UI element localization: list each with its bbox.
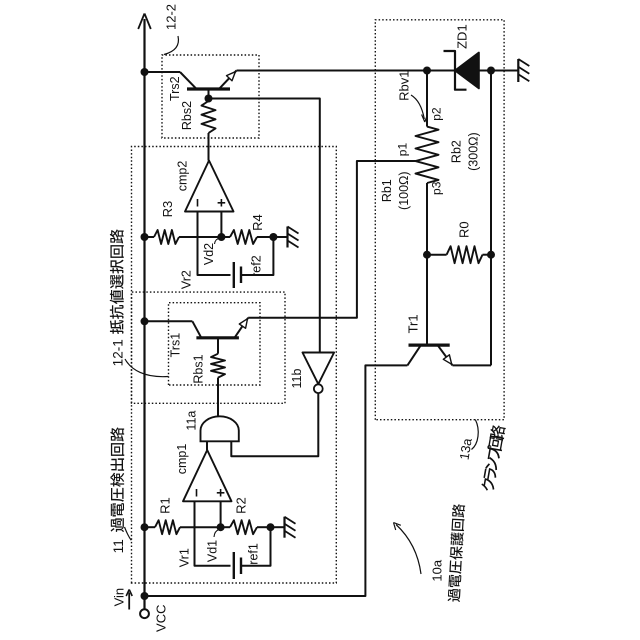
junction dot ZD1 anode / clamp ground node bbox=[487, 67, 495, 75]
svg-text:Tr1: Tr1 bbox=[406, 314, 421, 333]
comparator cmp2 triangle bbox=[185, 161, 234, 212]
svg-text:12-2: 12-2 bbox=[164, 4, 179, 30]
svg-text:Rbs2: Rbs2 bbox=[180, 101, 194, 130]
Trs2 emitter open arrowhead bbox=[227, 72, 236, 81]
svg-text:p2: p2 bbox=[430, 107, 444, 121]
wire R3 to node Vd2 bbox=[179, 236, 221, 238]
Vin input arrow bbox=[128, 593, 130, 610]
svg-text:Trs1: Trs1 bbox=[169, 333, 183, 358]
comparator cmp1 triangle bbox=[183, 450, 232, 501]
Trs1 emitter wire to p1 tap bbox=[248, 161, 415, 318]
VCC terminal circle bbox=[140, 609, 149, 618]
svg-text:R1: R1 bbox=[158, 497, 173, 514]
wire ZD1 anode to ground rail bbox=[479, 70, 491, 72]
ground symbol below R4 node bbox=[273, 236, 287, 238]
dotted box 11 overvoltage detection circuit bbox=[132, 147, 337, 584]
leader line for label 11 bbox=[125, 527, 132, 540]
junction dot Trs2 base node bbox=[205, 95, 213, 103]
svg-text:Vr2: Vr2 bbox=[180, 270, 194, 289]
label clamp circuit (katakana) bbox=[480, 424, 506, 492]
junction dot ZD1 cathode node bbox=[423, 67, 431, 75]
label 13a bbox=[456, 436, 474, 461]
svg-text:Vd1: Vd1 bbox=[206, 540, 220, 562]
wire ref2 to R4 ground node bbox=[241, 237, 273, 275]
zener diode ZD1 triangle (anode) bbox=[455, 53, 479, 89]
svg-text:(300Ω): (300Ω) bbox=[467, 132, 481, 171]
cmp2 plus sign bbox=[220, 199, 222, 207]
Tr1 collector diagonal bbox=[407, 346, 420, 366]
svg-text:R2: R2 bbox=[234, 497, 249, 514]
svg-text:cmp1: cmp1 bbox=[175, 444, 189, 475]
inverter 11b triangle bbox=[303, 353, 335, 385]
junction on rail to R3 bbox=[141, 233, 149, 241]
Trs1 emitter open arrowhead bbox=[239, 319, 247, 329]
wire p3 node to Rbv1 bbox=[426, 183, 428, 255]
wire rail dot to Tr1 collector (around bottom) bbox=[145, 365, 408, 596]
leader arrow for label 10a bbox=[396, 525, 421, 575]
wire Rbs1 to Trs1 base bbox=[217, 338, 219, 354]
resistor Rbs1 bbox=[211, 354, 225, 378]
wire cmp1 output to AND gate 11a bbox=[206, 441, 208, 450]
zener diode ZD1 cathode bar with hooks bbox=[444, 51, 467, 90]
transistor Trs1 base bar bbox=[196, 336, 239, 339]
svg-text:p1: p1 bbox=[396, 143, 410, 157]
wire cmp2 minus input to Vr2 bbox=[198, 212, 231, 276]
svg-text:11b: 11b bbox=[290, 368, 304, 388]
svg-text:ref2: ref2 bbox=[250, 255, 264, 277]
Trs2 emitter diagonal bbox=[220, 71, 237, 89]
wire rail to R1 bbox=[145, 526, 156, 528]
cmp1 plus sign bbox=[220, 489, 222, 497]
svg-text:11a: 11a bbox=[185, 411, 199, 431]
node Vd1 junction dot bbox=[217, 523, 225, 531]
wire cmp2 output to Rbs2 bbox=[208, 133, 210, 161]
svg-text:Rbs1: Rbs1 bbox=[192, 354, 206, 383]
svg-text:Vin: Vin bbox=[112, 588, 127, 607]
leader arrow Rbv1 to resistor bbox=[411, 95, 424, 119]
resistor R3 bbox=[154, 230, 179, 244]
wire R1 to node Vd1 bbox=[180, 526, 221, 528]
svg-text:p3: p3 bbox=[430, 181, 444, 195]
wire Trs2 base node to inverter 11b input bbox=[209, 99, 320, 353]
cmp1 minus sign bbox=[196, 489, 198, 497]
resistor Rbs2 bbox=[202, 101, 216, 133]
wire rail to R3 bbox=[145, 236, 155, 238]
transistor Trs2 base bar bbox=[187, 87, 230, 90]
svg-text:VCC: VCC bbox=[154, 604, 169, 631]
svg-text:Trs2: Trs2 bbox=[168, 76, 182, 101]
wire cmp1 plus input to Vd1 bbox=[220, 501, 222, 527]
wire 11a output to Rbs1 bbox=[217, 378, 219, 417]
junction on rail to Trs2 bbox=[141, 68, 149, 76]
output arrow (rail right end) bbox=[138, 14, 144, 30]
dotted box 13a clamp circuit bbox=[375, 20, 504, 420]
svg-text:Rbv1: Rbv1 bbox=[397, 71, 412, 101]
svg-text:R0: R0 bbox=[457, 221, 472, 238]
transistor Tr1 base bar bbox=[409, 344, 450, 347]
svg-text:Rb1: Rb1 bbox=[380, 179, 394, 202]
leader line for label 13a bbox=[472, 420, 479, 450]
node Vin/VCC supply rail wire bbox=[143, 19, 145, 609]
inverter 11b bubble bbox=[314, 384, 323, 393]
junction on rail to Trs1 bbox=[141, 317, 149, 325]
resistor R2 bbox=[230, 520, 257, 534]
junction dot R4/ref2/ground bbox=[269, 233, 277, 241]
leader line for label 12-2 bbox=[164, 36, 178, 55]
resistor R1 bbox=[155, 520, 180, 534]
svg-text:Rb2: Rb2 bbox=[450, 140, 464, 163]
svg-text:10a: 10a bbox=[430, 559, 445, 581]
junction on rail to Tr1 collector bbox=[141, 592, 149, 600]
clamp ground rail wire bbox=[490, 71, 492, 366]
Trs2 collector wire from rail bbox=[145, 71, 181, 73]
ground symbol below R2 node bbox=[271, 526, 285, 528]
svg-text:12-1: 12-1 bbox=[111, 339, 126, 366]
junction dot R0 top (p3 node) bbox=[423, 251, 431, 259]
node Vd2 junction dot bbox=[217, 233, 225, 241]
dotted box around 12-1 unit bbox=[132, 292, 286, 403]
svg-text:(100Ω): (100Ω) bbox=[397, 171, 411, 210]
wire cmp1 minus input to Vr1 bbox=[195, 501, 231, 565]
cmp2 minus sign bbox=[197, 199, 199, 207]
battery ref1 voltage source bbox=[233, 552, 235, 579]
AND gate 11a bbox=[201, 416, 239, 441]
wire Rbv1 to ZD1 node bbox=[426, 71, 428, 127]
dotted box 12-1 (Trs1+Rbs1) bbox=[169, 303, 261, 385]
leader line for label 12-1 bbox=[125, 359, 168, 377]
wire ref1 to R2 ground node bbox=[241, 527, 271, 566]
wire 11b output to 11a second input bbox=[231, 393, 318, 456]
Tr1 emitter wire to clamp ground rail bbox=[453, 364, 492, 366]
svg-text:cmp2: cmp2 bbox=[176, 161, 190, 192]
wire R2 to ground node bbox=[257, 526, 271, 528]
junction on rail to R1 bbox=[141, 523, 149, 531]
Tr1 emitter diagonal bbox=[438, 346, 453, 366]
Trs1 collector wire from rail bbox=[145, 320, 193, 322]
Trs2 emitter wire to clamp node bbox=[237, 70, 428, 72]
Tr1 emitter open arrowhead bbox=[443, 355, 451, 365]
wire Vd2 to R4 bbox=[221, 236, 230, 238]
svg-text:Vd2: Vd2 bbox=[202, 243, 216, 265]
leader Vd1 to node bbox=[214, 530, 219, 538]
wire Vd1 to R2 bbox=[221, 526, 230, 528]
junction dot R0 bottom bbox=[487, 251, 495, 259]
Trs1 emitter diagonal bbox=[235, 318, 248, 338]
Tr1 base wire from divider bbox=[426, 255, 428, 345]
resistor Rb1+Rb2 (Rbv1) zigzag bbox=[416, 127, 439, 183]
svg-text:11: 11 bbox=[111, 539, 126, 553]
resistor R0 bbox=[427, 254, 447, 256]
svg-text:R4: R4 bbox=[250, 214, 265, 231]
svg-text:R3: R3 bbox=[160, 201, 175, 218]
battery ref2 voltage source bbox=[233, 262, 235, 288]
junction dot R2/ref1/ground bbox=[267, 523, 275, 531]
ground symbol clamp bbox=[491, 70, 518, 72]
leader Vd2 to node bbox=[215, 238, 221, 244]
wire Rbs2 to Trs2 base node bbox=[208, 89, 210, 101]
resistor R4 bbox=[230, 230, 257, 244]
wire node to ZD1 cathode bbox=[427, 70, 455, 72]
wire cmp2 plus input to Vd2 bbox=[220, 212, 222, 238]
wire R4 to ground node bbox=[257, 236, 273, 238]
dotted box 12-2 (Trs2+Rbs2) bbox=[162, 55, 259, 138]
svg-text:Vr1: Vr1 bbox=[178, 548, 192, 567]
svg-text:ref1: ref1 bbox=[247, 543, 261, 565]
svg-text:ZD1: ZD1 bbox=[455, 24, 470, 49]
